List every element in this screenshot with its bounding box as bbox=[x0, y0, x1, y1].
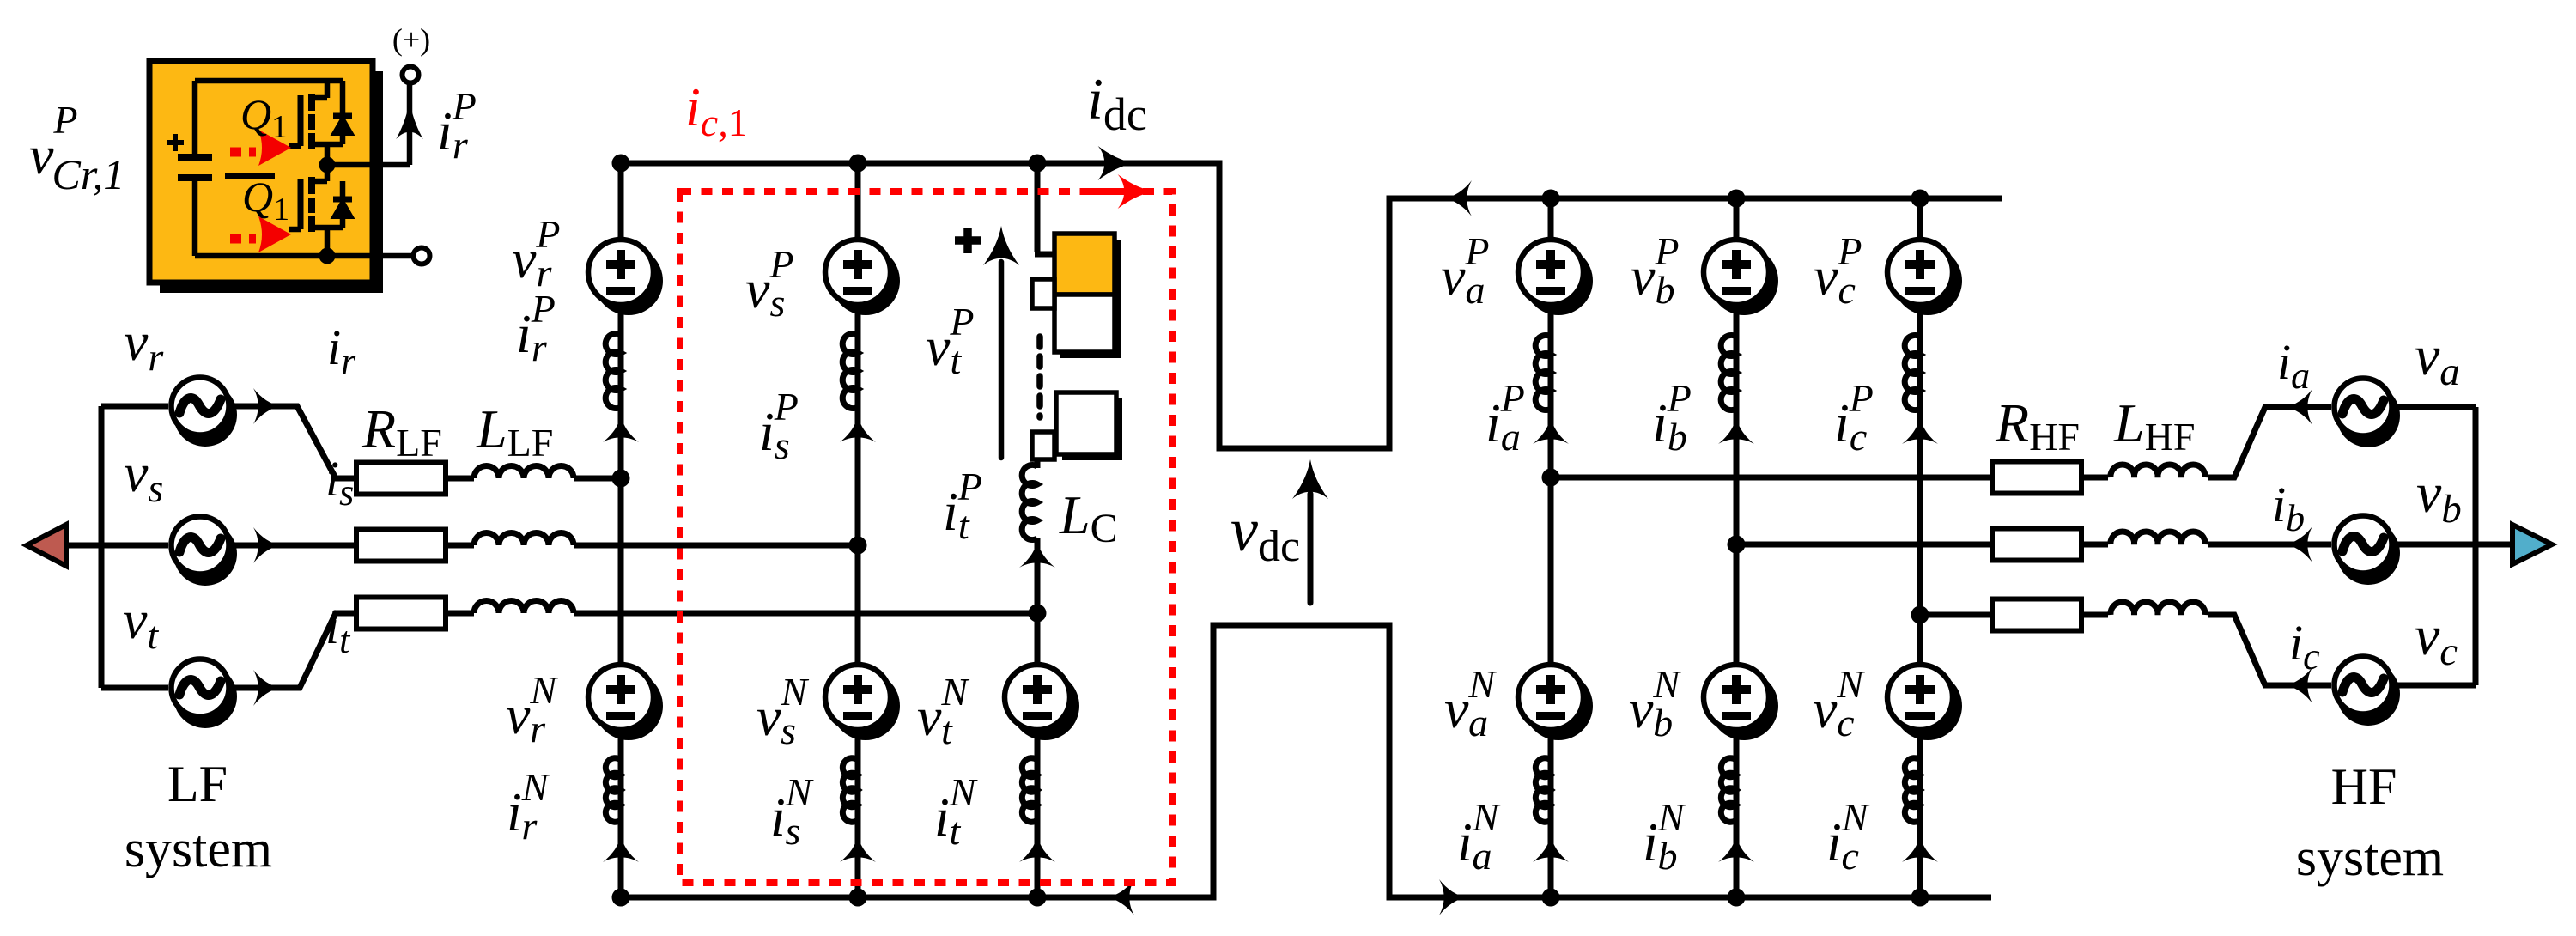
wire: leg s vertical bbox=[855, 163, 861, 897]
svg-text:iNb: iNb bbox=[1643, 795, 1686, 878]
inductor L_LF t bbox=[474, 601, 574, 614]
AC source v_t bbox=[172, 659, 238, 729]
svg-text:iNa: iNa bbox=[1457, 795, 1501, 878]
wire: top DC bus right bbox=[1389, 196, 2002, 202]
terminal triangle HF (cyan) bbox=[2512, 525, 2552, 564]
svg-text:iNs: iNs bbox=[770, 770, 814, 853]
transistor Q2 (lower MOSFET, Q1-bar) bbox=[289, 165, 343, 256]
inductor arm t N bbox=[1022, 758, 1037, 823]
transistor Q1 (upper MOSFET) bbox=[289, 81, 343, 165]
svg-text:(+): (+) bbox=[392, 22, 430, 57]
arrow i_s^P bbox=[840, 416, 876, 442]
svg-text:vdc: vdc bbox=[1230, 495, 1300, 571]
svg-text:vt: vt bbox=[123, 589, 159, 657]
svg-text:it: it bbox=[325, 599, 351, 661]
wire: SM chain to L_C bbox=[1035, 459, 1041, 468]
arrow: v_dc measurement arrow bbox=[1292, 459, 1328, 603]
arrow i_c bbox=[2286, 667, 2312, 703]
inductor arm r P bbox=[605, 334, 621, 409]
wire: LF left vertical bus bbox=[99, 406, 105, 688]
node: lower source junction bbox=[319, 248, 336, 264]
svg-text:iNr: iNr bbox=[507, 765, 550, 848]
svg-text:vPb: vPb bbox=[1631, 229, 1680, 312]
resistor R_HF c bbox=[1992, 599, 2081, 631]
arrow: v_t^P measurement arrow bbox=[983, 226, 1019, 458]
svg-text:LLF: LLF bbox=[476, 398, 553, 465]
submodule SM1 (orange) bbox=[1054, 234, 1121, 301]
wire: midpoint to output bbox=[327, 82, 410, 165]
svg-text:vs: vs bbox=[124, 442, 163, 510]
inductor L_LF s bbox=[474, 533, 574, 546]
wire: bottom DC bus left bbox=[621, 895, 1213, 901]
arrow i_r^P inset bbox=[396, 100, 423, 139]
node: top bus junctions left bbox=[612, 155, 630, 173]
svg-text:LHF: LHF bbox=[2113, 392, 2195, 459]
wire: lower output lead bbox=[327, 253, 414, 259]
inductor L_HF b bbox=[2111, 532, 2205, 544]
arrow i_dc bbox=[1098, 146, 1134, 180]
voltage source v_a^P bbox=[1518, 240, 1593, 315]
arrow i_a^P bbox=[1533, 417, 1569, 444]
arrow on top bus right bbox=[1445, 180, 1472, 216]
svg-text:ir: ir bbox=[327, 319, 356, 382]
node: bottom bus junctions left bbox=[612, 889, 630, 907]
voltage source v_b^P bbox=[1704, 240, 1778, 315]
wire: phase r row LF bbox=[101, 406, 621, 478]
inductor arm b P bbox=[1721, 336, 1736, 410]
inductor arm c N bbox=[1905, 758, 1920, 823]
inductor arm s N bbox=[842, 758, 858, 823]
arrow i_t bbox=[253, 670, 280, 706]
resistor R_HF b bbox=[1992, 529, 2081, 561]
inductor L_C bbox=[1022, 465, 1037, 540]
svg-text:vNc: vNc bbox=[1813, 662, 1865, 745]
svg-text:vPCr,1: vPCr,1 bbox=[29, 98, 125, 198]
terminal: negative output bbox=[414, 248, 430, 264]
resistor R_LF s bbox=[356, 530, 446, 562]
svg-text:RHF: RHF bbox=[1995, 392, 2080, 459]
loop i_c,1 (red dashed) bbox=[680, 191, 1172, 883]
submodule SM3 bbox=[1056, 392, 1122, 460]
svg-text:iPt: iPt bbox=[943, 465, 982, 547]
svg-text:ic,1: ic,1 bbox=[685, 76, 748, 144]
node: bottom bus junctions right bbox=[1542, 889, 1560, 907]
arrow on bottom bus left bbox=[1108, 879, 1134, 915]
svg-text:vNa: vNa bbox=[1444, 662, 1497, 745]
wire: bottom DC bus right bbox=[1389, 895, 1991, 901]
submodule pin square lower bbox=[1032, 432, 1054, 459]
svg-text:iPr: iPr bbox=[437, 84, 477, 167]
wire: inset top rail bbox=[195, 78, 343, 84]
inductor arm r N bbox=[605, 758, 621, 823]
wire: leg t top and submodule chain lead bbox=[1035, 163, 1054, 254]
wire: leg b vertical bbox=[1734, 198, 1740, 897]
submodule pin square upper bbox=[1032, 279, 1054, 308]
arrow i_c^P bbox=[1902, 417, 1938, 444]
arrow i_b^P bbox=[1718, 417, 1754, 444]
svg-text:iNt: iNt bbox=[934, 770, 978, 853]
voltage source v_r^P bbox=[588, 240, 663, 315]
wire: dashed chain continuation bbox=[1036, 337, 1043, 417]
svg-text:iPc: iPc bbox=[1834, 376, 1874, 459]
wire: DC link top step bbox=[1219, 161, 1389, 449]
resistor R_LF t bbox=[356, 598, 446, 629]
svg-text:vPa: vPa bbox=[1441, 229, 1490, 312]
svg-text:vNs: vNs bbox=[756, 670, 809, 752]
wire: HF right vertical bus bbox=[2473, 407, 2479, 685]
wire: leg c vertical bbox=[1917, 198, 1923, 897]
diode D1 (body diode of Q1) bbox=[333, 81, 352, 144]
svg-text:RLF: RLF bbox=[361, 398, 442, 465]
AC source v_c bbox=[2335, 657, 2401, 726]
arrow i_t^P bbox=[1019, 541, 1055, 568]
svg-text:vPs: vPs bbox=[745, 242, 794, 325]
wire: phase s row LF bbox=[66, 543, 858, 549]
node: phase c bbox=[1911, 606, 1929, 624]
wire: phase b row HF bbox=[1736, 542, 2512, 548]
arrow i_s bbox=[253, 527, 280, 563]
arrow i_c^N bbox=[1902, 836, 1938, 862]
wire: DC link bottom step bbox=[1213, 625, 1389, 901]
svg-text:ia: ia bbox=[2277, 334, 2310, 397]
node: phase a bbox=[1542, 469, 1560, 487]
inductor arm a P bbox=[1535, 336, 1551, 410]
voltage source v_a^N bbox=[1518, 665, 1593, 740]
node: phase b bbox=[1728, 536, 1746, 554]
wire: top DC bus left bbox=[621, 161, 1219, 167]
svg-text:vr: vr bbox=[124, 311, 164, 379]
arrow i_b^N bbox=[1718, 836, 1754, 862]
arrow i_r^N bbox=[603, 836, 639, 862]
inductor L_HF c bbox=[2111, 602, 2205, 615]
wire: phase a row HF bbox=[1551, 407, 2476, 477]
wire: leg a vertical bbox=[1548, 198, 1554, 897]
node: Q1-Q2 midpoint bbox=[319, 157, 336, 173]
svg-text:vNr: vNr bbox=[506, 668, 558, 751]
wire: leg t below L_C bbox=[1035, 538, 1041, 897]
arrow i_r bbox=[253, 388, 280, 424]
inductor arm a N bbox=[1535, 758, 1551, 823]
wire: leg r vertical bbox=[618, 163, 624, 897]
wire: phase t row LF bbox=[101, 613, 1037, 688]
svg-text:ib: ib bbox=[2272, 477, 2305, 539]
voltage source v_r^N bbox=[588, 665, 663, 740]
arrow: red loop direction bbox=[1091, 174, 1154, 209]
submodule SM2 bbox=[1054, 295, 1121, 358]
svg-text:va: va bbox=[2415, 325, 2460, 394]
svg-text:vPc: vPc bbox=[1814, 229, 1862, 312]
wire: inset bottom rail bbox=[195, 253, 327, 259]
svg-text:vPr: vPr bbox=[512, 212, 561, 295]
label Q_1 bar bbox=[225, 173, 289, 228]
arrow on bottom bus right bbox=[1439, 879, 1466, 915]
svg-text:vPt: vPt bbox=[926, 300, 975, 382]
voltage source v_t^N bbox=[1005, 665, 1079, 740]
resistor R_LF r bbox=[356, 463, 446, 495]
wire: phase c row HF bbox=[1920, 615, 2476, 685]
diode D2 (body diode of Q2) bbox=[333, 181, 352, 228]
arrow i_b bbox=[2286, 526, 2312, 562]
svg-text:vNb: vNb bbox=[1629, 662, 1681, 745]
arrow i_r^P bbox=[603, 416, 639, 442]
submodule body (orange) bbox=[149, 61, 383, 293]
arrow i_a bbox=[2286, 389, 2312, 425]
svg-text:iPs: iPs bbox=[759, 385, 799, 467]
svg-text:HF: HF bbox=[2331, 758, 2397, 815]
inductor arm s P bbox=[842, 334, 858, 409]
inductor arm c P bbox=[1905, 336, 1920, 410]
voltage source v_c^P bbox=[1887, 240, 1962, 315]
marker: + polarity of v_t^P bbox=[955, 228, 981, 253]
inductor L_HF a bbox=[2111, 465, 2205, 477]
resistor R_HF a bbox=[1992, 462, 2081, 494]
inductor arm b N bbox=[1721, 758, 1736, 823]
voltage source v_c^N bbox=[1887, 665, 1962, 740]
terminal: positive output bbox=[403, 67, 419, 83]
voltage source v_b^N bbox=[1704, 665, 1778, 740]
node: top bus junctions right bbox=[1542, 190, 1560, 208]
svg-text:ic: ic bbox=[2289, 615, 2320, 678]
svg-text:iNc: iNc bbox=[1826, 795, 1870, 878]
svg-text:vNt: vNt bbox=[917, 670, 969, 752]
svg-text:iPb: iPb bbox=[1652, 376, 1692, 459]
inductor L_LF r bbox=[474, 466, 574, 479]
node: phase s bbox=[849, 537, 867, 555]
gate signal Q1 (red dashes + arrow) bbox=[230, 130, 291, 166]
svg-text:system: system bbox=[125, 820, 272, 878]
capacitor C bbox=[167, 81, 212, 256]
AC source v_b bbox=[2335, 516, 2401, 586]
svg-text:LF: LF bbox=[167, 756, 228, 812]
AC source v_s bbox=[172, 517, 238, 587]
node: phase t bbox=[1029, 605, 1047, 623]
svg-text:system: system bbox=[2296, 829, 2444, 887]
gate signal Q2 (red dashes + arrow) bbox=[230, 216, 291, 252]
voltage source v_s^P bbox=[825, 240, 900, 315]
svg-text:is: is bbox=[325, 451, 354, 514]
arrow i_s^N bbox=[840, 836, 876, 862]
svg-text:iPa: iPa bbox=[1485, 376, 1525, 459]
voltage source v_s^N bbox=[825, 665, 900, 740]
svg-text:iPr: iPr bbox=[516, 287, 556, 369]
svg-text:vc: vc bbox=[2415, 605, 2458, 674]
AC source v_a bbox=[2335, 379, 2401, 448]
svg-text:LC: LC bbox=[1059, 484, 1118, 551]
AC source v_r bbox=[172, 378, 238, 447]
svg-text:vb: vb bbox=[2416, 462, 2462, 532]
arrow i_a^N bbox=[1533, 836, 1569, 862]
svg-text:idc: idc bbox=[1087, 66, 1147, 140]
terminal triangle LF (maroon) bbox=[27, 525, 66, 566]
arrow i_t^N bbox=[1019, 836, 1055, 862]
node: phase r bbox=[612, 470, 630, 488]
